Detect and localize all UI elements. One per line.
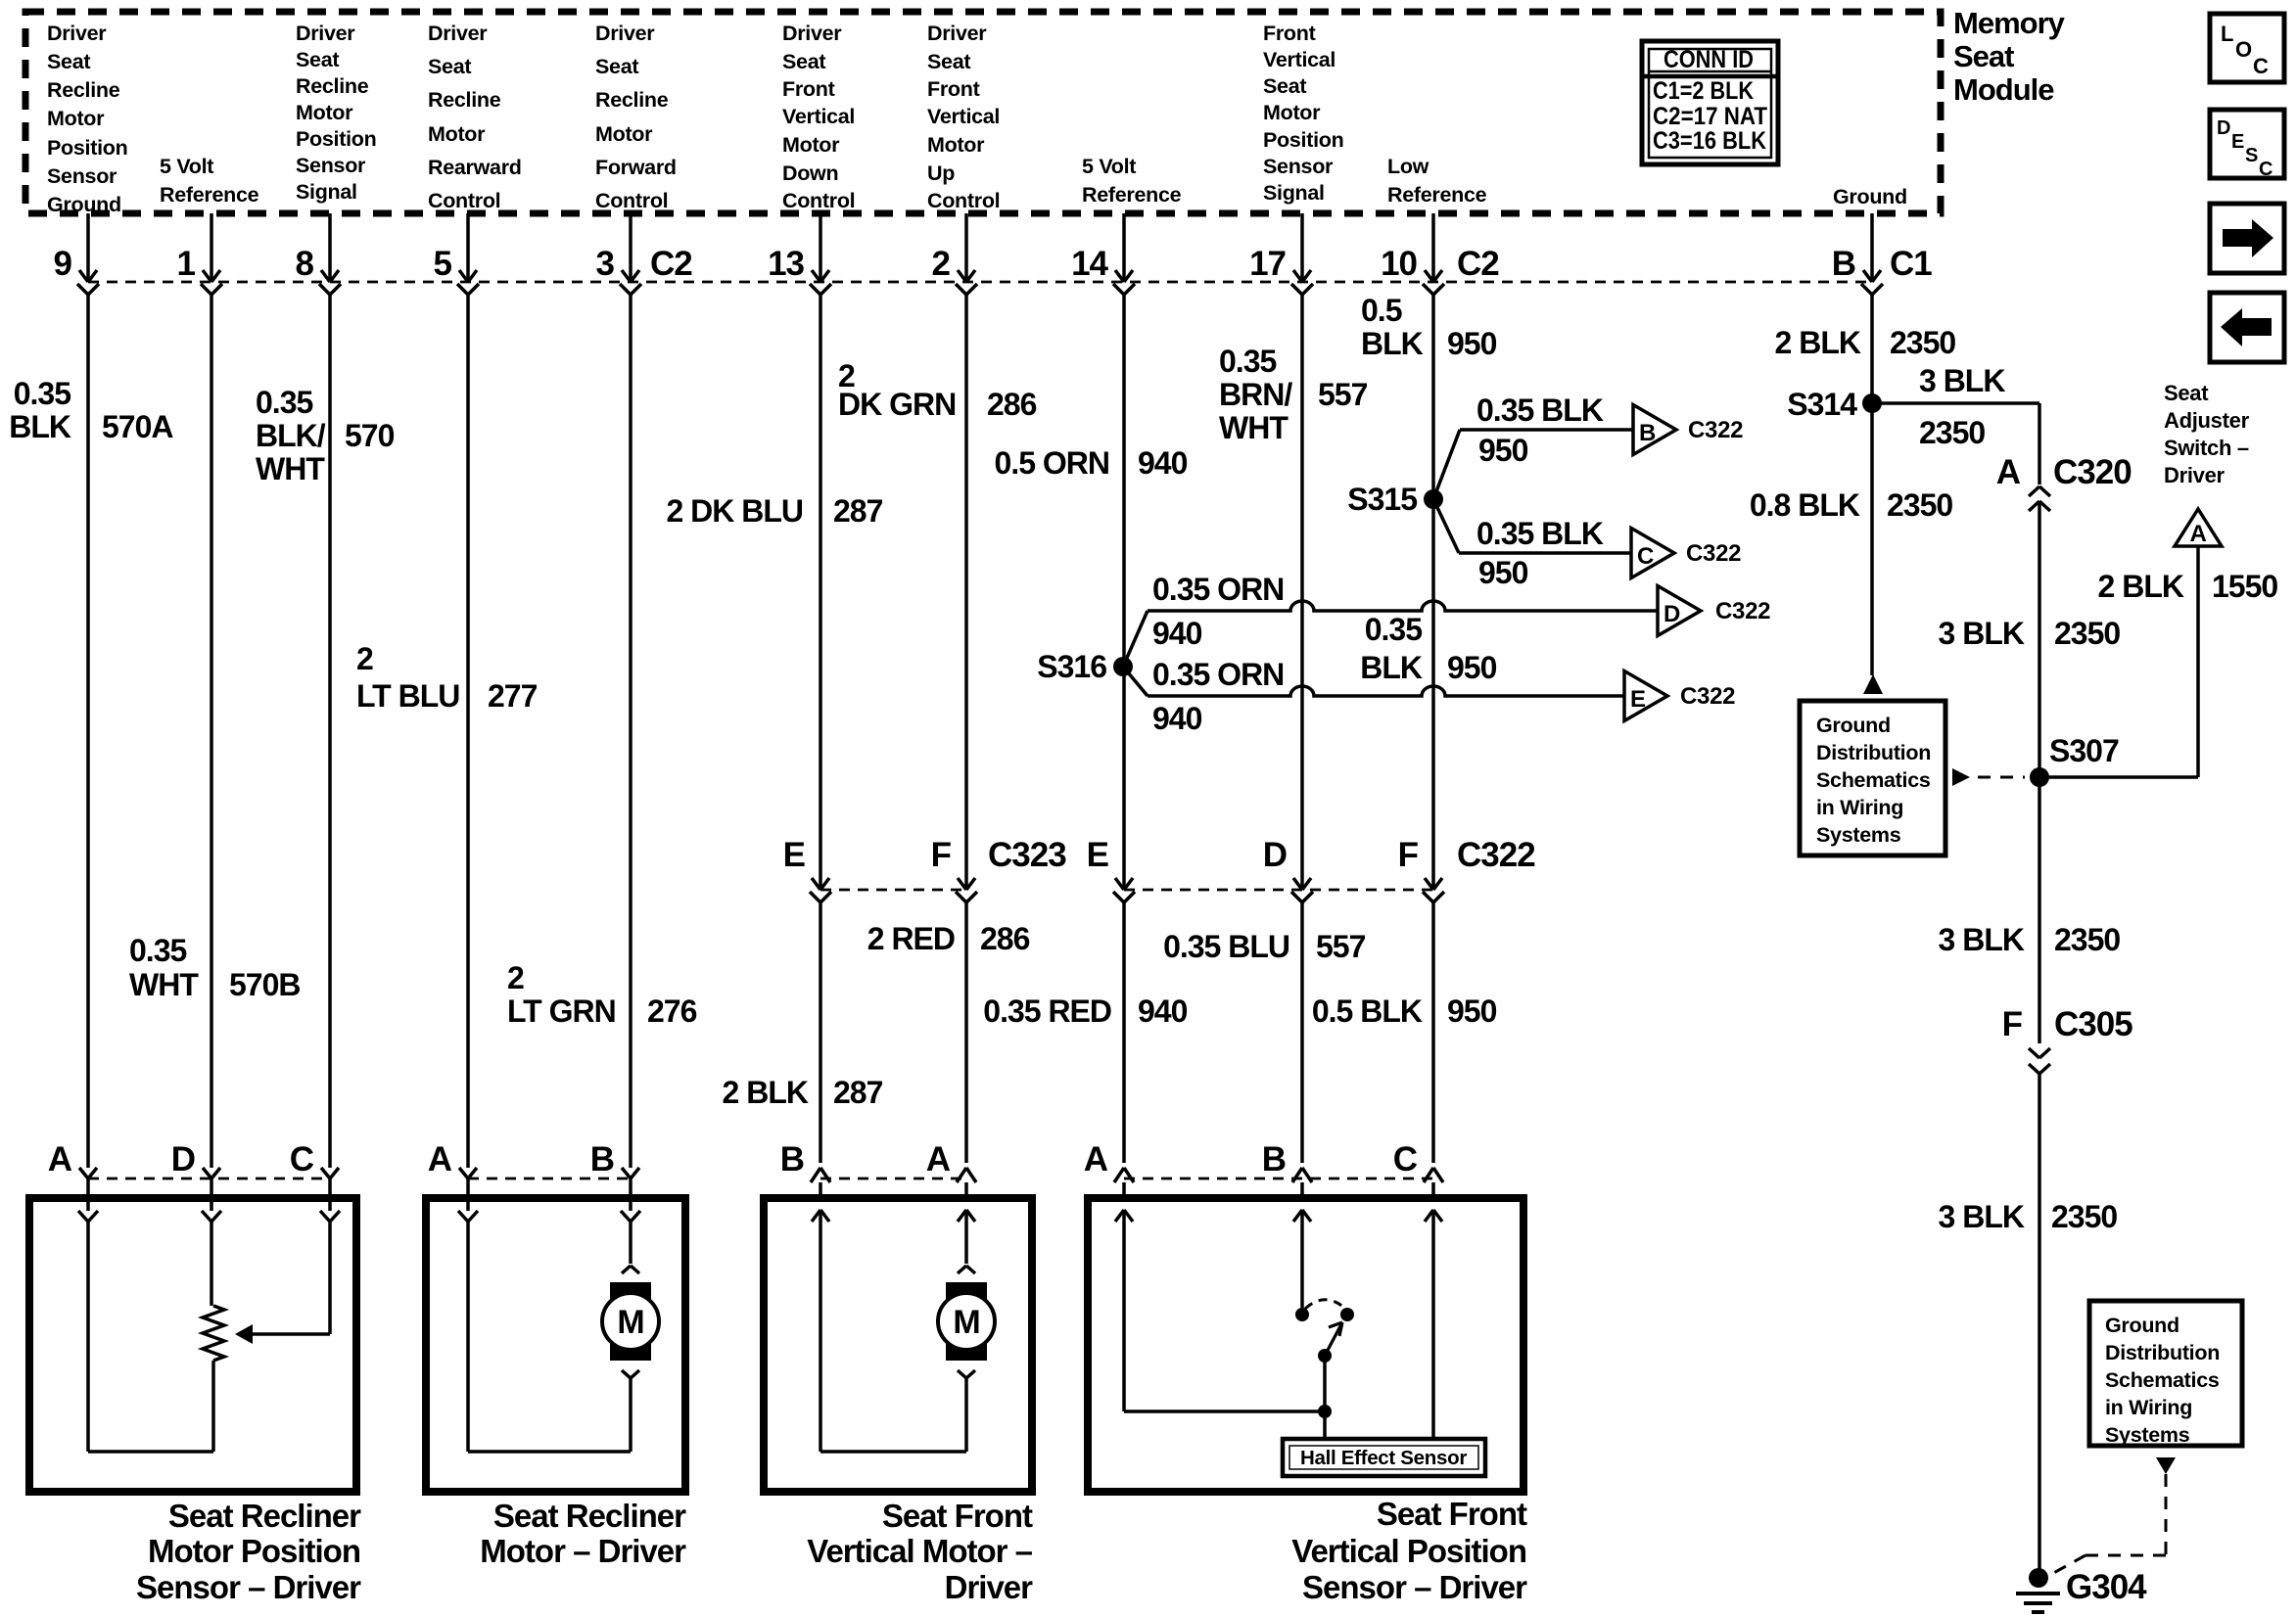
connector C320 cavity A — [1996, 453, 2132, 511]
connector pin D symbol — [1263, 836, 1313, 902]
connector C322 cavity D triangle — [1658, 586, 1770, 636]
component pin B connector (down) — [590, 1140, 640, 1222]
wire 2 BLK 2350 (pin B ground) — [1775, 295, 1956, 403]
svg-text:0.5 BLK: 0.5 BLK — [1312, 993, 1423, 1029]
wire 2 BLK 1550 (Seat Adjuster Switch to S307) — [2039, 546, 2277, 777]
wire 0.35 ORN 940 branch to C322 D — [1123, 572, 1658, 667]
svg-text:10: 10 — [1381, 245, 1417, 283]
svg-text:277: 277 — [488, 678, 538, 714]
wire pin 17 module exit + connector symbol — [1249, 213, 1313, 295]
svg-text:Position: Position — [296, 127, 376, 151]
component box Seat Recliner Motor Position Sensor - Driver — [29, 1198, 356, 1492]
wire inside sensor: bottom link A-D — [88, 1450, 213, 1454]
svg-text:Ground: Ground — [47, 193, 121, 216]
svg-text:Signal: Signal — [296, 180, 357, 204]
wire 0.35 BLK 950 branch to C322 C — [1433, 499, 1631, 590]
Seat Adjuster Switch triangle A — [2175, 509, 2222, 547]
wire pin B module exit + connector symbol — [1832, 213, 1883, 295]
connector pin F symbol — [931, 836, 977, 902]
svg-text:Module: Module — [1953, 72, 2054, 107]
wire 0.35 BLK 570A (pin 9 to sensor A) — [9, 295, 173, 1168]
svg-text:Systems: Systems — [2105, 1423, 2190, 1447]
svg-text:C323: C323 — [988, 836, 1066, 874]
module pin label pin 5 — [428, 22, 522, 212]
component box Seat Recliner Motor - Driver — [426, 1198, 685, 1492]
svg-text:B: B — [590, 1140, 614, 1178]
svg-text:F: F — [1398, 836, 1419, 874]
svg-text:Front: Front — [927, 77, 980, 101]
svg-text:Driver: Driver — [782, 22, 842, 45]
svg-text:Sensor: Sensor — [1263, 155, 1334, 178]
svg-text:C322: C322 — [1680, 683, 1735, 710]
module pin label pin 14 — [1082, 155, 1182, 207]
component pin B connector (up) — [1262, 1140, 1312, 1222]
svg-text:WHT: WHT — [256, 451, 325, 486]
connector C322 cavity C triangle — [1631, 529, 1741, 578]
svg-text:C2: C2 — [650, 245, 692, 283]
label Seat Recliner Motor Position Sensor - Driver — [136, 1498, 361, 1605]
svg-text:570B: 570B — [229, 967, 301, 1002]
svg-text:E: E — [783, 836, 805, 874]
switch pivot dot — [1318, 1349, 1332, 1363]
svg-text:Reference: Reference — [1082, 183, 1182, 207]
svg-text:Memory: Memory — [1953, 6, 2066, 40]
Hall Effect Sensor box — [1283, 1439, 1485, 1476]
svg-text:Distribution: Distribution — [1816, 741, 1931, 764]
module pin label pin 1 — [160, 155, 259, 207]
module pin label pin B — [1833, 185, 1907, 208]
svg-text:0.35 ORN: 0.35 ORN — [1152, 657, 1284, 692]
svg-text:D: D — [171, 1140, 195, 1178]
ground G304 — [2016, 1568, 2147, 1612]
module pin label pin 13 — [782, 22, 855, 212]
connector pin F symbol — [1398, 836, 1444, 902]
wire 2 DK BLU 287 / 2 BLK 287 (pin 13 to vertical motor B) — [666, 295, 882, 1163]
svg-text:Driver: Driver — [47, 22, 107, 45]
component box Seat Front Vertical Position Sensor - Driver — [1088, 1198, 1523, 1492]
svg-text:950: 950 — [1447, 993, 1497, 1029]
svg-text:Control: Control — [782, 189, 855, 212]
svg-text:17: 17 — [1249, 245, 1286, 283]
svg-text:557: 557 — [1316, 929, 1366, 964]
svg-text:Seat: Seat — [296, 48, 339, 71]
svg-text:0.35 BLK: 0.35 BLK — [1476, 393, 1604, 428]
svg-text:D: D — [2217, 117, 2230, 139]
component pin A connector (up) — [926, 1140, 976, 1222]
wire inside: pin A to motor — [964, 1210, 968, 1264]
svg-text:A: A — [1084, 1140, 1108, 1178]
svg-text:Schematics: Schematics — [2105, 1368, 2220, 1392]
svg-text:Reference: Reference — [160, 183, 259, 207]
svg-text:BLK/: BLK/ — [256, 418, 326, 453]
component pin C connector (down) — [290, 1140, 340, 1222]
dashed reference from lower box to G304 — [2048, 1457, 2176, 1576]
svg-text:Motor: Motor — [47, 107, 105, 130]
wire 3 BLK 2350 (C320 to S307) — [1939, 501, 2121, 777]
svg-text:C305: C305 — [2054, 1005, 2132, 1043]
svg-text:557: 557 — [1318, 377, 1368, 412]
svg-text:Motor: Motor — [428, 122, 486, 146]
svg-text:Position: Position — [1263, 128, 1343, 152]
svg-text:Hall Effect Sensor: Hall Effect Sensor — [1300, 1447, 1467, 1469]
svg-text:2350: 2350 — [2054, 922, 2120, 957]
svg-text:Seat Front: Seat Front — [1377, 1496, 1527, 1532]
svg-text:276: 276 — [647, 993, 697, 1029]
svg-text:Control: Control — [927, 189, 1000, 212]
Seat Adjuster Switch label — [2164, 381, 2250, 487]
svg-text:BLK: BLK — [9, 409, 71, 444]
svg-text:E: E — [1630, 686, 1646, 713]
svg-text:Motor – Driver: Motor – Driver — [480, 1533, 686, 1569]
svg-text:in Wiring: in Wiring — [1816, 796, 1903, 819]
svg-text:Position: Position — [47, 136, 127, 160]
component pin D connector (down) — [171, 1140, 221, 1222]
svg-text:Up: Up — [927, 162, 955, 185]
svg-text:286: 286 — [987, 387, 1037, 422]
svg-text:A: A — [48, 1140, 72, 1178]
svg-text:287: 287 — [833, 1075, 883, 1110]
svg-text:S314: S314 — [1787, 387, 1857, 422]
svg-text:940: 940 — [1138, 445, 1188, 481]
svg-text:5 Volt: 5 Volt — [1082, 155, 1136, 178]
svg-text:Forward: Forward — [595, 156, 677, 179]
svg-text:2350: 2350 — [1887, 487, 1952, 523]
module Memory Seat Module dashed outline — [25, 12, 1941, 213]
svg-text:Motor: Motor — [296, 101, 353, 124]
DESC icon box — [2210, 110, 2284, 180]
motor M (seat recliner) — [610, 1282, 651, 1361]
Ground Distribution Schematics box (upper) — [1800, 701, 1945, 855]
svg-text:0.35 ORN: 0.35 ORN — [1152, 572, 1284, 607]
wire 2 LT GRN 276 (pin 3 to motor B) — [507, 295, 697, 1168]
svg-text:C322: C322 — [1457, 836, 1535, 874]
wire inside motor box: pin B to motor — [629, 1222, 633, 1264]
svg-text:0.35 RED: 0.35 RED — [983, 993, 1111, 1029]
CONN ID table — [1642, 41, 1778, 164]
svg-text:B: B — [1262, 1140, 1286, 1178]
svg-text:2350: 2350 — [1890, 325, 1955, 360]
wire pin 2 module exit + connector symbol — [932, 213, 977, 295]
wire pin 13 module exit + connector symbol — [768, 213, 831, 295]
module name label — [1953, 6, 2066, 107]
wire 2 DK GRN 286 / 2 RED 286 (pin 2 to vertical motor A) — [838, 295, 1037, 1163]
svg-text:Ground: Ground — [2105, 1314, 2179, 1337]
svg-text:940: 940 — [1152, 616, 1202, 651]
svg-text:2 BLK: 2 BLK — [2098, 569, 2184, 604]
connector C305 cavity F — [2002, 1005, 2133, 1074]
svg-text:3: 3 — [596, 245, 615, 283]
splice S314 — [1787, 387, 1882, 422]
svg-text:Front: Front — [1263, 22, 1316, 45]
wire below motor — [629, 1378, 633, 1452]
wire inside motor box: bottom link — [468, 1450, 631, 1454]
svg-text:Distribution: Distribution — [2105, 1341, 2220, 1364]
wire 0.35 WHT 570B (pin 1 to sensor D) — [129, 295, 301, 1168]
svg-text:Vertical: Vertical — [1263, 48, 1335, 71]
svg-text:5: 5 — [434, 245, 452, 283]
connector pin E symbol — [1087, 836, 1135, 902]
svg-text:Control: Control — [428, 189, 500, 212]
svg-text:Adjuster: Adjuster — [2164, 408, 2250, 433]
svg-text:Sensor – Driver: Sensor – Driver — [136, 1569, 361, 1605]
svg-text:Driver: Driver — [945, 1569, 1034, 1605]
svg-text:Control: Control — [595, 189, 668, 212]
wire inside: pin B leg — [819, 1210, 822, 1452]
component pin A connector (down) — [48, 1140, 98, 1222]
svg-text:S: S — [2245, 145, 2258, 166]
svg-text:C3=16 BLK: C3=16 BLK — [1653, 127, 1766, 155]
svg-text:13: 13 — [768, 245, 804, 283]
wire pin 3 module exit + connector symbol — [596, 213, 641, 295]
wire pivot to junction — [1323, 1356, 1327, 1440]
svg-text:Motor: Motor — [1263, 101, 1321, 124]
component pin A connector (down) — [428, 1140, 478, 1222]
svg-text:LT BLU: LT BLU — [356, 678, 459, 714]
svg-text:Recline: Recline — [428, 88, 501, 112]
wire 3 BLK 2350 (S307 to C305) — [1939, 777, 2121, 1043]
svg-text:940: 940 — [1152, 701, 1202, 736]
svg-text:Schematics: Schematics — [1816, 768, 1931, 792]
wire inside sensor: pin A leg — [86, 1222, 90, 1452]
svg-text:Down: Down — [782, 162, 838, 185]
svg-text:5 Volt: 5 Volt — [160, 155, 213, 178]
svg-text:in Wiring: in Wiring — [2105, 1396, 2192, 1419]
wire below motor — [964, 1378, 968, 1452]
svg-text:B: B — [1639, 420, 1656, 446]
splice S315 — [1347, 482, 1443, 517]
svg-text:S316: S316 — [1037, 649, 1106, 684]
svg-text:C322: C322 — [1688, 417, 1743, 443]
component pin B connector (up) — [780, 1140, 830, 1222]
svg-text:C322: C322 — [1715, 598, 1770, 624]
svg-text:0.8 BLK: 0.8 BLK — [1750, 487, 1860, 523]
svg-text:C: C — [2253, 54, 2269, 78]
svg-text:0.5: 0.5 — [1361, 293, 1402, 328]
svg-text:Driver: Driver — [428, 22, 488, 45]
svg-text:0.35: 0.35 — [1365, 612, 1422, 647]
svg-text:Seat Recliner: Seat Recliner — [168, 1498, 361, 1534]
svg-text:1: 1 — [177, 245, 196, 283]
svg-text:D: D — [1663, 601, 1680, 627]
svg-text:Vertical Motor –: Vertical Motor – — [807, 1533, 1032, 1569]
wire pin 5 module exit + connector symbol — [434, 213, 479, 295]
svg-text:8: 8 — [296, 245, 314, 283]
svg-text:F: F — [2002, 1005, 2023, 1043]
svg-text:C: C — [1393, 1140, 1418, 1178]
svg-text:Recline: Recline — [595, 88, 669, 112]
svg-text:M: M — [617, 1304, 643, 1341]
svg-text:2 BLK: 2 BLK — [1775, 325, 1861, 360]
svg-text:LT GRN: LT GRN — [507, 993, 616, 1029]
wire 3 BLK 2350 (S314 branch to C320) — [1872, 363, 2039, 485]
svg-text:Systems: Systems — [1816, 823, 1901, 847]
svg-text:DK GRN: DK GRN — [838, 387, 956, 422]
svg-text:0.35: 0.35 — [1219, 344, 1276, 379]
wire inside sensor: pin C leg — [328, 1222, 332, 1334]
svg-text:Seat: Seat — [47, 50, 90, 73]
wire inside: pin A leg — [1122, 1210, 1126, 1411]
svg-text:Motor: Motor — [782, 133, 840, 157]
svg-text:Sensor – Driver: Sensor – Driver — [1302, 1569, 1527, 1605]
svg-text:1550: 1550 — [2212, 569, 2277, 604]
splice S307 — [2030, 733, 2119, 787]
svg-text:Recline: Recline — [296, 74, 369, 98]
wire 2 LT BLU 277 (pin 5 to motor A) — [356, 295, 538, 1168]
dashed reference from box to S307 — [1952, 768, 2025, 786]
svg-text:C2: C2 — [1457, 245, 1499, 283]
connector C323 dashed line — [820, 889, 966, 892]
svg-text:BRN/: BRN/ — [1219, 377, 1292, 412]
svg-text:570A: 570A — [102, 409, 173, 444]
svg-text:Motor: Motor — [927, 133, 985, 157]
svg-text:Driver: Driver — [595, 22, 655, 45]
svg-text:E: E — [1087, 836, 1108, 874]
wire inside motor box: pin A leg — [466, 1222, 470, 1452]
svg-text:F: F — [931, 836, 952, 874]
svg-text:Rearward: Rearward — [428, 156, 522, 179]
splice S316 — [1037, 649, 1133, 684]
svg-text:C: C — [1637, 543, 1654, 570]
wire inside: A to switch common — [1124, 1409, 1325, 1413]
svg-text:Ground: Ground — [1833, 185, 1907, 208]
svg-text:950: 950 — [1478, 555, 1528, 590]
svg-text:950: 950 — [1447, 326, 1497, 361]
svg-text:D: D — [1263, 836, 1287, 874]
wire 0.5 BLK 950 (pin 10 low ref to position sensor C) — [1312, 293, 1497, 1163]
svg-text:Seat: Seat — [782, 50, 825, 73]
wire inside: pin C leg — [1431, 1210, 1435, 1440]
svg-text:Seat Recliner: Seat Recliner — [493, 1498, 686, 1534]
label Seat Front Vertical Motor - Driver — [807, 1498, 1033, 1605]
svg-text:3 BLK: 3 BLK — [1919, 363, 2005, 398]
svg-text:Reference: Reference — [1387, 183, 1487, 207]
svg-text:Signal: Signal — [1263, 181, 1325, 205]
svg-text:M: M — [953, 1304, 979, 1341]
svg-text:Seat: Seat — [428, 55, 471, 78]
svg-text:BLK: BLK — [1360, 650, 1423, 685]
wire 0.35 BLK 950 branch to C322 B — [1433, 393, 1633, 499]
svg-text:Driver: Driver — [927, 22, 987, 45]
svg-text:2350: 2350 — [2051, 1199, 2117, 1234]
svg-text:C: C — [290, 1140, 314, 1178]
svg-text:0.35: 0.35 — [129, 933, 186, 968]
wire 0.8 BLK 2350 (S314 to Ground Distribution) — [1750, 403, 1953, 694]
svg-text:14: 14 — [1071, 245, 1108, 283]
wire inside sensor: pin D leg upper — [210, 1222, 213, 1306]
svg-text:286: 286 — [980, 921, 1030, 956]
wire pin 10 module exit + connector symbol — [1381, 213, 1444, 295]
svg-text:Recline: Recline — [47, 78, 120, 102]
svg-text:C1: C1 — [1890, 245, 1932, 283]
svg-text:Seat: Seat — [927, 50, 970, 73]
svg-text:C1=2 BLK: C1=2 BLK — [1653, 77, 1754, 105]
module pin label pin 3 — [595, 22, 677, 212]
potentiometer wiper arm with arrow — [235, 1324, 330, 1344]
svg-text:2350: 2350 — [1919, 415, 1985, 450]
svg-text:2: 2 — [507, 960, 524, 995]
svg-text:0.35: 0.35 — [14, 376, 70, 411]
svg-text:Seat: Seat — [1953, 39, 2014, 73]
wire pin 9 module exit + connector symbol — [54, 213, 99, 295]
svg-text:Front: Front — [782, 77, 835, 101]
svg-text:C: C — [2259, 159, 2273, 180]
svg-text:2: 2 — [356, 641, 373, 676]
module pin label pin 9 — [47, 22, 127, 216]
svg-text:2: 2 — [932, 245, 951, 283]
svg-text:WHT: WHT — [1219, 410, 1289, 445]
svg-text:940: 940 — [1138, 993, 1188, 1029]
wire pin 8 module exit + connector symbol — [296, 213, 341, 295]
svg-text:WHT: WHT — [129, 967, 199, 1002]
svg-text:Seat Front: Seat Front — [882, 1498, 1033, 1534]
Ground Distribution Schematics box (lower) — [2089, 1301, 2242, 1447]
svg-text:3 BLK: 3 BLK — [1939, 922, 2025, 957]
svg-text:0.35 BLK: 0.35 BLK — [1476, 516, 1604, 551]
svg-text:A: A — [926, 1140, 951, 1178]
svg-text:Vertical: Vertical — [782, 105, 855, 128]
component pin A connector (up) — [1084, 1140, 1134, 1222]
svg-text:BLK: BLK — [1361, 326, 1424, 361]
svg-text:Vertical Position: Vertical Position — [1291, 1533, 1526, 1569]
module pin label pin 2 — [927, 22, 1000, 212]
svg-text:3 BLK: 3 BLK — [1939, 1199, 2025, 1234]
switch arm with arrow — [1325, 1322, 1342, 1356]
component connector dashed lines — [88, 1178, 330, 1180]
svg-text:Low: Low — [1387, 155, 1429, 178]
component box Seat Front Vertical Motor - Driver — [764, 1198, 1032, 1492]
left arrow icon box — [2210, 293, 2284, 362]
svg-text:2 RED: 2 RED — [867, 921, 955, 956]
svg-text:A: A — [428, 1140, 452, 1178]
svg-text:2 DK BLU: 2 DK BLU — [666, 493, 803, 529]
svg-text:CONN ID: CONN ID — [1663, 46, 1754, 73]
svg-text:0.35: 0.35 — [256, 385, 312, 420]
svg-text:C2=17 NAT: C2=17 NAT — [1653, 103, 1767, 130]
wire 0.35 BLK/WHT 570 (pin 8 to sensor C) — [256, 295, 395, 1168]
switch dashed travel arc — [1305, 1300, 1344, 1309]
svg-text:Motor Position: Motor Position — [148, 1533, 360, 1569]
connector C322 cavity B triangle — [1633, 405, 1743, 455]
wire inside: bottom link — [820, 1450, 966, 1454]
svg-text:Driver: Driver — [2164, 463, 2226, 487]
right arrow icon box — [2210, 204, 2284, 273]
svg-text:Vertical: Vertical — [927, 105, 1000, 128]
connector C322 cavity E triangle — [1624, 671, 1735, 721]
svg-text:Motor: Motor — [595, 122, 653, 146]
connector pin E symbol — [783, 836, 831, 902]
svg-text:Seat: Seat — [595, 55, 638, 78]
svg-text:Seat: Seat — [2164, 381, 2209, 405]
module pin label pin 17 — [1263, 22, 1343, 205]
svg-text:B: B — [1832, 245, 1855, 283]
svg-text:3 BLK: 3 BLK — [1939, 616, 2025, 651]
switch contact dots — [1295, 1308, 1309, 1321]
wire inside sensor: pin D leg lower — [211, 1361, 215, 1452]
svg-text:0.5 ORN: 0.5 ORN — [995, 445, 1109, 481]
label Seat Recliner Motor - Driver — [480, 1498, 686, 1569]
LOC icon box — [2210, 14, 2284, 82]
label Seat Front Vertical Position Sensor - Driver — [1291, 1496, 1527, 1605]
component pin C connector (up) — [1393, 1140, 1443, 1222]
junction dot — [1318, 1405, 1332, 1418]
svg-text:E: E — [2231, 131, 2244, 153]
svg-text:Switch –: Switch – — [2164, 436, 2249, 460]
module pin label pin 10 — [1387, 155, 1487, 207]
connector C2/C1 dashed line — [88, 281, 1872, 284]
wire pin 14 module exit + connector symbol — [1071, 213, 1135, 295]
wire 0.35 BRN/WHT 557 / 0.35 BLU 557 (pin 17 signal to position sensor B) — [1163, 295, 1368, 1163]
svg-text:950: 950 — [1478, 433, 1528, 468]
